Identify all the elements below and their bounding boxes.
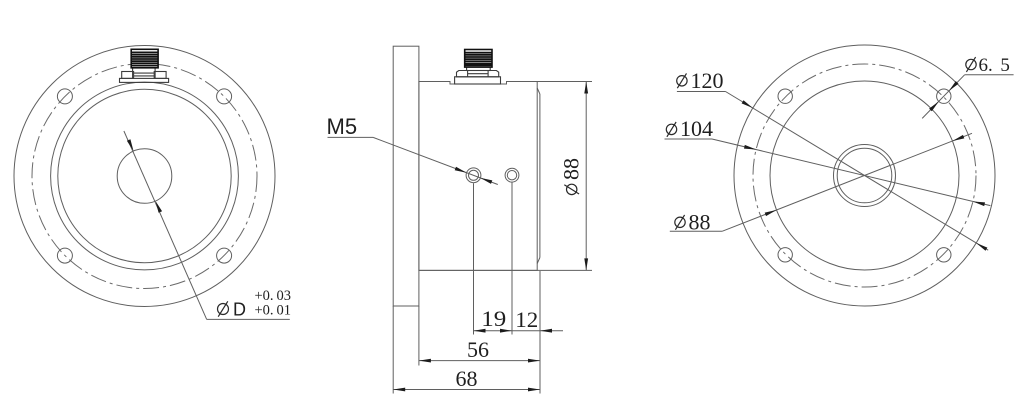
dimension line 56 xyxy=(419,360,540,362)
extension line from plate right edge xyxy=(418,306,420,366)
extension line from left M5 hole xyxy=(473,183,475,334)
right view bolt circle (dash-dot) xyxy=(753,64,976,287)
dimension line diameter 88 xyxy=(585,82,587,271)
svg-text:19: 19 xyxy=(481,306,506,331)
svg-text:104: 104 xyxy=(680,116,713,141)
dimension text D with tolerance xyxy=(218,301,229,316)
right view bolt hole 4 D6.5 xyxy=(937,248,951,262)
dimension text diameter 88 rotated xyxy=(559,158,584,195)
right view outer flange circle xyxy=(734,45,995,306)
left view connector nut left ear xyxy=(122,72,134,79)
side view connector threaded stud xyxy=(465,50,492,68)
extension lines for diameter 88 height xyxy=(537,81,592,83)
left view bolt hole 2 xyxy=(217,89,232,104)
dimension line 19 xyxy=(474,330,513,332)
svg-text:56: 56 xyxy=(467,337,489,362)
leader line for diameter 88 xyxy=(670,230,723,232)
right view center hole inner xyxy=(837,148,892,203)
svg-text:+0. 03: +0. 03 xyxy=(255,288,291,304)
leader line for diameter 104 xyxy=(665,138,713,140)
right view bolt hole 1 D6.5 xyxy=(778,89,792,103)
side view end cap edge xyxy=(537,88,540,94)
svg-text:88: 88 xyxy=(689,209,711,234)
right view bolt hole 3 D6.5 xyxy=(778,248,792,262)
dimension line 68 xyxy=(393,389,540,391)
leader line for diameter 120 xyxy=(677,91,726,93)
svg-text:M5: M5 xyxy=(327,114,358,139)
side view M5 hole right xyxy=(505,168,519,182)
leader line for dimension D xyxy=(124,131,207,319)
extension line from body right edge xyxy=(539,271,541,394)
side view connector base flange xyxy=(455,77,501,84)
side view connector neck xyxy=(467,67,491,71)
left view body circle D88 inner step xyxy=(58,89,231,262)
left view body circle D88 outer xyxy=(51,82,239,270)
dimension text diameter 88 xyxy=(675,215,685,230)
side view connector hex nut xyxy=(457,71,499,77)
extension line from plate left edge xyxy=(392,306,394,394)
left view connector threaded stud xyxy=(131,49,158,68)
left view bolt hole 1 xyxy=(57,89,72,104)
left view center hole D xyxy=(117,149,172,204)
dimension line 12 xyxy=(512,330,540,332)
dimension text diameter 104 xyxy=(666,122,676,137)
left view bolt hole 4 xyxy=(217,248,232,263)
dimension text diameter 120 xyxy=(677,73,687,88)
leader line for M5 tapped holes xyxy=(328,136,374,138)
left view connector neck xyxy=(133,68,156,79)
svg-text:D: D xyxy=(233,300,246,320)
side view M5 hole left xyxy=(466,168,481,183)
left view connector nut right ear xyxy=(154,72,166,79)
svg-text:+0. 01: +0. 01 xyxy=(255,302,291,318)
left view bolt circle (dash-dot) xyxy=(32,64,257,289)
side view flange plate xyxy=(393,46,419,306)
right view bolt hole 2 D6.5 xyxy=(937,89,951,103)
side view body outline xyxy=(419,82,537,271)
svg-text:68: 68 xyxy=(456,366,478,391)
leader line for diameter 6.5 bolt holes xyxy=(965,74,1014,76)
right view center hole outer xyxy=(834,145,896,207)
dimension text diameter 6.5 xyxy=(966,57,976,72)
svg-text:12: 12 xyxy=(515,307,538,332)
left view outer flange circle D120 xyxy=(14,46,275,307)
left view connector base flange xyxy=(120,78,169,82)
extension line from right M5 hole xyxy=(511,183,513,335)
right view body circle D88 xyxy=(770,81,959,270)
svg-text:120: 120 xyxy=(691,68,724,93)
left view bolt hole 3 xyxy=(57,248,72,263)
svg-text:6. 5: 6. 5 xyxy=(979,55,1010,76)
svg-text:88: 88 xyxy=(559,158,584,180)
